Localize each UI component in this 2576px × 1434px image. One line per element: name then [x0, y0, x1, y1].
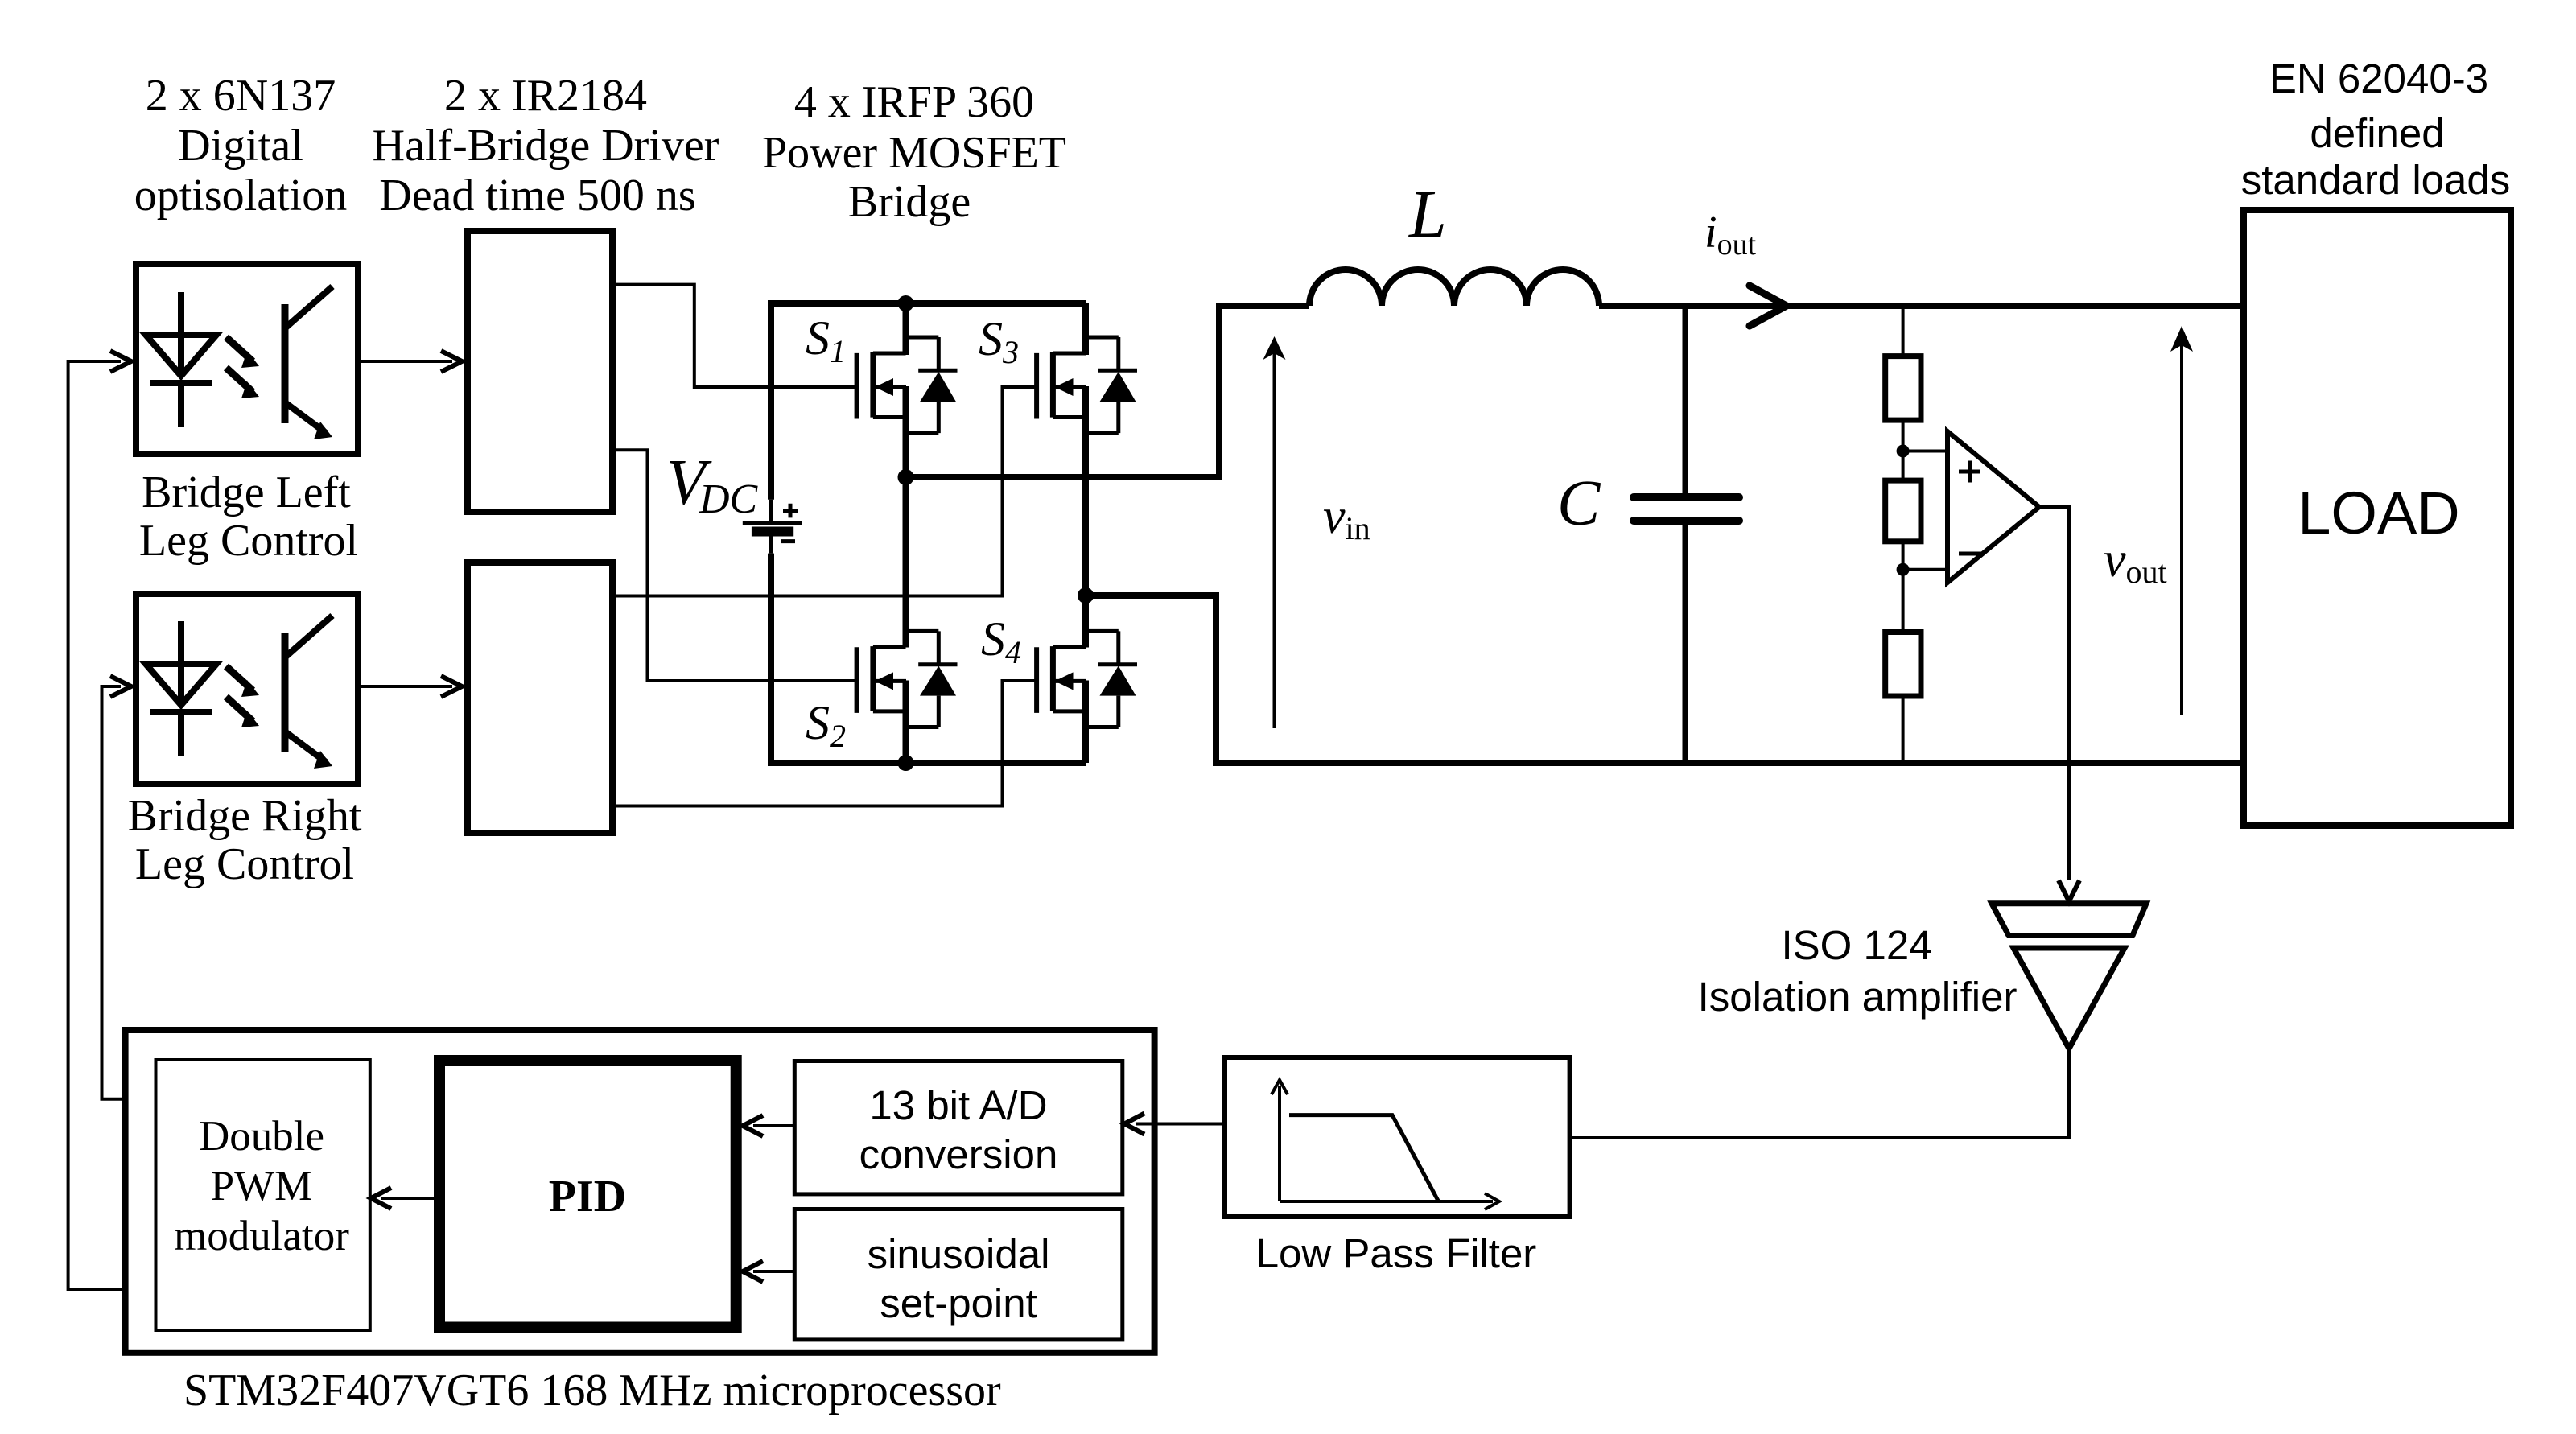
svg-text:PID: PID [549, 1172, 626, 1222]
svg-text:Power MOSFET: Power MOSFET [762, 128, 1066, 178]
svg-text:S4: S4 [981, 612, 1021, 670]
ISO 124 trapezoid [1992, 904, 2146, 936]
bridge bottom rail [771, 760, 1086, 766]
battery plate - [752, 527, 793, 537]
LOAD box [2244, 210, 2511, 826]
svg-text:conversion: conversion [859, 1131, 1058, 1177]
arrowhead into opto1 [110, 351, 131, 372]
wire: opto1 to driver1 [361, 360, 452, 363]
svg-text:Double: Double [199, 1113, 324, 1160]
resistor R2 [1886, 480, 1921, 542]
junction dot right leg node [1078, 587, 1094, 604]
microprocessor outer box (STM32F407VGT6) [126, 1030, 1155, 1353]
wire: driver2 output to S3 gate [616, 387, 1037, 596]
svg-text:Leg Control: Leg Control [135, 839, 354, 889]
opto U1 phototransistor [282, 304, 289, 423]
opto U2 phototransistor [282, 633, 289, 752]
arrowhead into PID from set-point [743, 1261, 763, 1282]
wire: left leg node to output top [906, 306, 1310, 477]
left leg lower (S2 source) [903, 681, 909, 764]
wire: driver1 output to S2 gate [616, 450, 857, 681]
arrowhead into PWM modulator [371, 1188, 391, 1209]
capacitor C bottom lead [1683, 521, 1688, 763]
inductor L arcs [1309, 270, 1599, 306]
svg-text:Leg Control: Leg Control [139, 516, 358, 566]
svg-text:optisolation: optisolation [134, 171, 347, 220]
VDC rail upper [768, 300, 774, 500]
wire: driver1 output to S1 gate [616, 285, 857, 387]
wire: feedback uP to opto1 [68, 361, 122, 1289]
svg-text:set-point: set-point [880, 1280, 1037, 1326]
svg-text:ISO 124: ISO 124 [1781, 922, 1931, 968]
transistor S2 [857, 631, 958, 727]
wire sinusoidal to PID [753, 1270, 794, 1273]
svg-text:S3: S3 [979, 312, 1019, 370]
opto U1 LED [146, 286, 332, 439]
opto U2 LED [146, 616, 332, 769]
svg-text:modulator: modulator [174, 1213, 349, 1259]
arrowhead into driver2 [441, 676, 462, 697]
op-amp minus sign [1959, 552, 1983, 556]
opto U2 light arrows [226, 666, 253, 690]
wire node to opamp + input [1903, 450, 1947, 453]
right leg lower (S4 source) [1082, 681, 1089, 764]
svg-text:Bridge Right: Bridge Right [128, 791, 362, 841]
svg-text:defined: defined [2310, 110, 2444, 156]
LPF horizontal axis arrowhead [1485, 1193, 1499, 1209]
svg-text:Digital: Digital [178, 121, 303, 171]
battery lead bottom [769, 532, 773, 554]
v_in arrow [1273, 344, 1276, 728]
battery minus sign [781, 539, 795, 543]
svg-text:L: L [1408, 177, 1447, 252]
right leg upper (S3 drain) [1082, 303, 1089, 355]
arrowhead into PID [743, 1115, 763, 1136]
svg-text:S2: S2 [806, 696, 846, 754]
i_out arrow on top wire [1750, 286, 1787, 326]
svg-text:Isolation amplifier: Isolation amplifier [1698, 974, 2018, 1020]
wire: opto2 to driver2 [361, 685, 452, 688]
divider wire R1-R2 [1902, 420, 1905, 480]
svg-text:vin: vin [1323, 489, 1370, 546]
junction dot left leg node [898, 469, 914, 485]
wire: right leg node to bottom rail [1086, 595, 2244, 763]
LPF vertical axis [1278, 1086, 1281, 1201]
bridge top rail [771, 300, 1086, 307]
divider bottom lead [1902, 696, 1905, 763]
arrowhead into ISO amplifier [2059, 880, 2079, 901]
node dot to opamp - [1897, 563, 1910, 576]
svg-text:iout: iout [1704, 208, 1757, 262]
svg-text:S1: S1 [806, 311, 846, 369]
Low Pass Filter box [1225, 1057, 1570, 1217]
divider top lead [1902, 306, 1905, 356]
svg-text:4 x IRFP 360: 4 x IRFP 360 [794, 77, 1034, 127]
optoisolator U1 box (Bridge Left Leg Control) [136, 264, 358, 454]
wire node to opamp - input [1903, 568, 1947, 571]
svg-text:2 x 6N137: 2 x 6N137 [146, 71, 336, 121]
junction dot bridge top-left leg [898, 295, 914, 311]
VDC rail lower [768, 554, 774, 766]
svg-text:sinusoidal: sinusoidal [868, 1231, 1050, 1277]
PID box [439, 1061, 736, 1328]
svg-text:Bridge Left: Bridge Left [142, 468, 351, 517]
svg-text:Dead time 500 ns: Dead time 500 ns [379, 171, 695, 220]
LPF vertical axis arrowhead [1272, 1080, 1288, 1094]
wire LPF to A/D [1136, 1123, 1225, 1126]
op-amp U5 triangle [1947, 431, 2039, 583]
left leg upper (S1 drain) [903, 303, 909, 355]
wire: feedback uP to opto2 [102, 686, 122, 1099]
svg-text:PWM: PWM [211, 1163, 313, 1209]
battery lead top [769, 500, 773, 523]
svg-text:EN 62040-3: EN 62040-3 [2269, 56, 2488, 101]
wire ISO output to LPF [1570, 1049, 2069, 1138]
LPF horizontal axis [1280, 1200, 1493, 1203]
resistor R1 [1886, 356, 1921, 420]
wire: driver2 output to S4 gate [616, 681, 1037, 806]
junction dot bottom-left leg [898, 755, 914, 771]
svg-text:2 x IR2184: 2 x IR2184 [444, 71, 647, 121]
wire opamp output down to ISO [2039, 507, 2069, 880]
capacitor C plates [1634, 497, 1739, 521]
transistor S1 [857, 337, 958, 433]
arrowhead into A/D [1124, 1114, 1144, 1135]
Double PWM modulator box [156, 1060, 370, 1330]
svg-text:vout: vout [2104, 533, 2167, 590]
svg-text:STM32F407VGT6 168 MHz micropro: STM32F407VGT6 168 MHz microprocessor [183, 1366, 1001, 1415]
svg-text:standard loads: standard loads [2241, 157, 2511, 203]
right leg middle (S3 source to S4 drain) [1082, 386, 1089, 648]
arrowhead into opto2 [110, 676, 131, 697]
capacitor C top lead [1683, 306, 1688, 497]
left leg middle (S1 source to S2 drain) [903, 386, 909, 648]
op-amp plus sign [1959, 461, 1980, 483]
transistor S4 [1037, 631, 1137, 727]
13 bit A/D conversion box [794, 1061, 1123, 1194]
svg-text:Bridge: Bridge [848, 177, 971, 227]
ISO 124 triangle [2013, 948, 2125, 1049]
svg-text:C: C [1557, 468, 1601, 539]
opto U1 light arrows [226, 337, 253, 361]
svg-text:13 bit A/D: 13 bit A/D [869, 1082, 1047, 1128]
svg-text:LOAD: LOAD [2298, 480, 2460, 546]
half-bridge driver U4 box (IR2184 #2) [468, 562, 612, 833]
battery plate + [743, 521, 802, 525]
wire A/D to PID [753, 1124, 794, 1127]
wire: inductor to LOAD top [1599, 303, 2244, 309]
sinusoidal set-point box [794, 1209, 1123, 1340]
svg-text:Half-Bridge Driver: Half-Bridge Driver [373, 121, 719, 171]
svg-text:Low Pass Filter: Low Pass Filter [1256, 1230, 1537, 1276]
node dot to opamp + [1897, 445, 1910, 458]
v_out arrow [2180, 342, 2183, 715]
optoisolator U2 box (Bridge Right Leg Control) [136, 594, 358, 784]
LPF response curve [1289, 1115, 1438, 1201]
transistor S3 [1037, 337, 1137, 433]
half-bridge driver U3 box (IR2184 #1) [468, 231, 612, 512]
wire PID to PWM modulator [381, 1197, 434, 1200]
battery plus sign [783, 504, 798, 518]
arrowhead into driver1 [441, 351, 462, 372]
resistor R3 [1886, 633, 1921, 697]
svg-text:DC: DC [699, 476, 759, 522]
divider wire R2-R3 [1902, 542, 1905, 633]
